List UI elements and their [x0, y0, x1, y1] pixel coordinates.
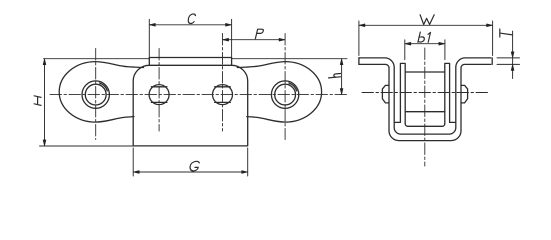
- dimension h: [341, 59, 343, 95]
- label W: [420, 15, 434, 25]
- dimension b1: [405, 40, 445, 60]
- inner link plate left bar: [400, 63, 405, 123]
- left link plate outline: [59, 62, 143, 123]
- dimension C: [149, 19, 231, 58]
- centerline horizontal left view: [50, 94, 347, 96]
- dimension G: [133, 148, 248, 176]
- channel inner surface (flange top / leg inner / inner bottom): [359, 58, 491, 134]
- attachment plate body: [133, 65, 248, 146]
- right link plate outline: [237, 62, 321, 123]
- step line left: [394, 121, 400, 123]
- label T: [500, 29, 513, 39]
- centerline hole 2 vertical (P left extension): [222, 34, 224, 132]
- label b1: [418, 32, 431, 42]
- centerline horizontal right view: [362, 92, 489, 94]
- roller R2 pin arc: [289, 83, 297, 91]
- centerline roller R1 vertical: [95, 49, 97, 140]
- label C: [187, 14, 196, 24]
- wire: H bottom extension line: [40, 145, 134, 147]
- attachment flange lip: [149, 58, 231, 66]
- flange left end cap: [358, 58, 360, 65]
- roller R2 outer: [271, 81, 298, 108]
- pin boss right: [461, 85, 468, 103]
- roller end view bottom edge: [405, 111, 445, 113]
- step line right: [450, 121, 456, 123]
- centerline vertical right view: [424, 48, 426, 166]
- roller R2 bushing: [275, 84, 296, 105]
- hole 1 bottom chord: [151, 101, 167, 103]
- label h: [329, 74, 341, 78]
- hole 1 top chord: [151, 86, 167, 88]
- roller R1 outer: [82, 81, 109, 108]
- wire: top extension line right part: [232, 58, 347, 60]
- dimension P: [223, 39, 286, 41]
- pin boss left: [382, 85, 389, 103]
- dimension W: [359, 21, 493, 56]
- roller end view top edge: [405, 71, 445, 73]
- attachment hole 2: [213, 85, 233, 105]
- label G: [189, 161, 200, 171]
- hole 2 top chord: [215, 86, 231, 88]
- bushing web bottom: [405, 124, 445, 127]
- hole 2 bottom chord: [215, 101, 231, 103]
- channel outer surface (flange bottom / leg outer / outer bottom): [359, 64, 491, 140]
- centerline roller R2 vertical (P right extension): [284, 34, 286, 140]
- dimension H: [44, 59, 46, 146]
- dimension T: [497, 31, 520, 78]
- roller R1 pin arc: [99, 83, 107, 91]
- label P: [255, 29, 263, 38]
- flange right end cap: [491, 58, 493, 65]
- centerline hole 1 vertical: [158, 49, 160, 132]
- inner link plate right bar: [445, 63, 450, 123]
- label H: [34, 96, 41, 106]
- top extension line (H/h top reference): [44, 58, 150, 60]
- attachment hole 1: [149, 85, 169, 105]
- roller R1 bushing: [85, 84, 106, 105]
